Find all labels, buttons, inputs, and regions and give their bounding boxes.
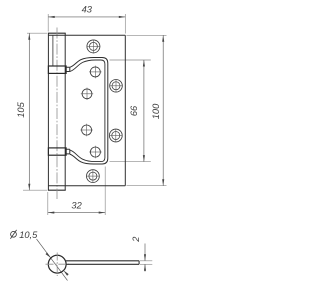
extension line 105-top: [27, 32, 47, 34]
svg-text:66: 66: [129, 105, 139, 116]
svg-text:100: 100: [151, 103, 161, 119]
extension line 66-bottom: [110, 161, 151, 163]
svg-text:10,5: 10,5: [19, 230, 38, 240]
extension line 100-bottom: [127, 185, 167, 187]
svg-text:43: 43: [82, 5, 93, 15]
knuckle top ear tab: [66, 67, 70, 71]
knuckle top band: [48, 66, 66, 73]
inner leaf inner contour: [70, 60, 105, 162]
side view: circle centerlines: [46, 263, 70, 265]
knuckle bottom band: [48, 148, 66, 155]
outer plate bottom edge: [48, 185, 125, 187]
outer plate right edge: [124, 35, 126, 185]
screw hole C2: [80, 124, 93, 137]
knuckle left edge: [47, 33, 49, 190]
inner leaf outer contour: [70, 58, 108, 165]
extension line 2-top: [140, 260, 152, 262]
extension line 100-top: [127, 34, 167, 36]
side view: leader line for diameter: [37, 239, 68, 281]
outer plate top edge: [48, 34, 125, 36]
dimension 105 line: [28, 33, 30, 190]
knuckle bottom ear tab: [66, 149, 70, 154]
extension line 43-left: [47, 14, 49, 32]
dimension 66 line: [143, 60, 145, 162]
screw hole E: [109, 129, 122, 142]
extension line 43-right: [124, 14, 126, 34]
svg-text:2: 2: [131, 236, 141, 243]
dimension 32 line: [48, 212, 105, 214]
side view: knuckle circle: [48, 255, 66, 273]
extension line 32-left: [47, 192, 49, 215]
dimension 43 line: [48, 16, 125, 18]
extension line 32-right: [104, 167, 106, 216]
screw hole A: [87, 40, 101, 54]
dimension 2 lines: [144, 244, 146, 261]
knuckle bottom cap: [48, 189, 66, 191]
extension line 66-top: [110, 59, 151, 61]
side view: leaf plate: [66, 261, 139, 265]
extension line 2-bottom: [140, 263, 152, 265]
screw hole A2: [86, 169, 99, 182]
svg-text:32: 32: [71, 200, 82, 210]
knuckle centerline: [56, 28, 58, 200]
screw hole B2: [89, 146, 102, 159]
knuckle top cap: [48, 32, 66, 34]
svg-text:105: 105: [16, 101, 26, 117]
knuckle right edge: [64, 33, 66, 190]
screw hole C: [81, 88, 93, 100]
side view: diameter symbol: [10, 230, 16, 239]
screw hole B: [89, 66, 102, 79]
extension line 105-bottom: [23, 189, 47, 191]
knuckle rolled-edge line (top segment): [52, 35, 54, 66]
dimension 100 line: [162, 35, 164, 185]
screw hole D: [109, 79, 122, 92]
